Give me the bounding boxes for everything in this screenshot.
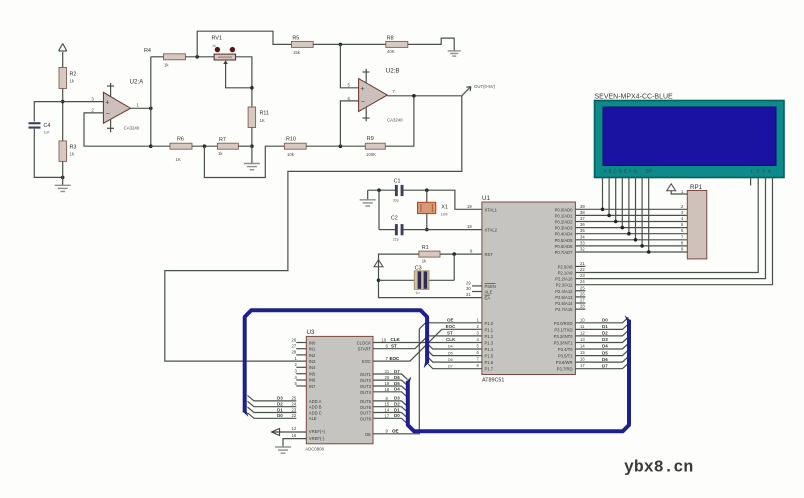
- svg-text:24: 24: [580, 279, 585, 284]
- wire R11 node to ground: [251, 146, 253, 163]
- svg-text:18: 18: [385, 387, 390, 392]
- potentiometer RV1: [212, 36, 236, 65]
- wire OE from U3 to U1 P1.0: [373, 323, 482, 434]
- wire RP1 pin1 to power: [671, 191, 687, 194]
- wire U-loop under ground: [204, 146, 284, 177]
- node feedback/R6: [149, 144, 153, 148]
- svg-text:6: 6: [348, 96, 351, 101]
- op-amp U2:A: [92, 79, 145, 133]
- svg-text:100K: 100K: [366, 152, 376, 157]
- svg-text:R11: R11: [260, 111, 270, 117]
- svg-text:19: 19: [467, 204, 472, 209]
- power terminal triangle RP1: [667, 184, 676, 191]
- svg-text:EOC: EOC: [390, 356, 401, 361]
- capacitor C2: [395, 224, 404, 235]
- svg-text:25: 25: [580, 285, 585, 290]
- svg-text:3: 3: [295, 369, 298, 374]
- power terminal triangle VCC: [374, 260, 383, 267]
- svg-text:36: 36: [580, 222, 585, 227]
- wire C2 row to XTAL2: [379, 229, 395, 231]
- svg-text:2: 2: [92, 108, 95, 113]
- svg-text:D0: D0: [394, 413, 400, 418]
- node R7/R11/ground: [250, 144, 254, 148]
- svg-text:IN3: IN3: [309, 359, 316, 364]
- svg-text:25: 25: [292, 396, 297, 401]
- resistor R10: [284, 143, 306, 149]
- svg-text:1k: 1k: [164, 63, 169, 68]
- op-amp U2:B: [348, 68, 404, 123]
- svg-text:D0: D0: [602, 318, 608, 323]
- svg-text:14: 14: [580, 344, 585, 349]
- svg-text:30: 30: [466, 286, 471, 291]
- svg-text:P0.7/AD7: P0.7/AD7: [555, 250, 574, 255]
- U3 left inside labels: [309, 340, 326, 441]
- svg-text:P3.7/RD: P3.7/RD: [557, 367, 573, 372]
- wire R1 left to VCC rail: [379, 254, 482, 298]
- svg-text:5: 5: [681, 222, 684, 227]
- resistor R4: [164, 54, 186, 60]
- U1 P2 pin numbers 21-28: [580, 261, 585, 309]
- power terminal triangle VREF+: [272, 429, 280, 436]
- node U2:B out: [412, 94, 416, 98]
- wire RV1 wiper down: [226, 63, 252, 88]
- svg-text:ybx8.cn: ybx8.cn: [624, 458, 693, 477]
- svg-text:22: 22: [292, 413, 297, 418]
- svg-text:P0.6/AD6: P0.6/AD6: [555, 244, 574, 249]
- svg-text:1k: 1k: [218, 151, 223, 156]
- svg-text:4: 4: [477, 337, 480, 342]
- svg-text:28: 28: [292, 350, 297, 355]
- U1 left inside labels: [485, 207, 498, 371]
- svg-text:31: 31: [466, 292, 471, 297]
- svg-text:6: 6: [386, 344, 389, 349]
- svg-text:28: 28: [580, 304, 585, 309]
- bus A bottom taper: [243, 412, 249, 417]
- svg-text:IN6: IN6: [309, 378, 316, 383]
- svg-text:R9: R9: [367, 136, 374, 142]
- svg-text:OE: OE: [392, 429, 399, 434]
- svg-text:ADD A: ADD A: [309, 399, 322, 404]
- svg-text:D3: D3: [394, 396, 400, 401]
- svg-text:−: −: [106, 111, 110, 118]
- svg-text:D1: D1: [394, 407, 400, 412]
- wire U2:B output: [387, 95, 462, 97]
- bus A right taper: [424, 362, 429, 368]
- svg-text:U1: U1: [482, 195, 490, 202]
- wire row B left: [151, 145, 170, 147]
- svg-text:ADD B: ADD B: [309, 405, 322, 410]
- svg-text:38: 38: [580, 210, 585, 215]
- svg-text:D4: D4: [602, 344, 608, 349]
- svg-text:27: 27: [580, 298, 585, 303]
- wire R4 to RV1: [186, 56, 215, 58]
- svg-text:11: 11: [580, 324, 585, 329]
- svg-text:RV1: RV1: [212, 36, 222, 42]
- svg-text:17: 17: [580, 363, 585, 368]
- node R1/C3/RST: [452, 252, 456, 256]
- svg-text:19: 19: [385, 381, 390, 386]
- svg-text:1k: 1k: [422, 259, 427, 264]
- svg-text:XTAL1: XTAL1: [485, 207, 498, 212]
- svg-text:IN2: IN2: [309, 353, 316, 358]
- node C1 left / C2 branch: [377, 188, 381, 192]
- svg-text:D6: D6: [448, 358, 453, 362]
- wire R6 to R7: [192, 145, 217, 147]
- svg-text:10: 10: [382, 337, 387, 342]
- svg-text:VREF(+): VREF(+): [309, 429, 326, 434]
- svg-text:OUT1: OUT1: [360, 372, 372, 377]
- U1 P2 unused stubs: [575, 266, 585, 309]
- svg-text:P3.0/RXD: P3.0/RXD: [554, 321, 573, 326]
- svg-text:CA3240: CA3240: [387, 118, 403, 123]
- wire RV1 right end down to R11: [236, 57, 252, 107]
- svg-text:7: 7: [681, 234, 684, 239]
- svg-text:3: 3: [477, 330, 480, 335]
- node R4/RV1/jog: [195, 55, 199, 59]
- wire op-amp A -in feedback loop: [84, 113, 151, 146]
- bus B left top taper: [406, 377, 412, 382]
- svg-text:P3.6/WR: P3.6/WR: [556, 360, 573, 365]
- svg-text:ADC0808: ADC0808: [305, 447, 324, 452]
- resistor R9: [365, 143, 385, 149]
- wire R10 to R9: [306, 145, 365, 147]
- svg-text:IN1: IN1: [309, 347, 316, 352]
- svg-text:D1: D1: [602, 324, 608, 329]
- svg-text:4: 4: [681, 216, 684, 221]
- svg-text:23: 23: [292, 407, 297, 412]
- svg-text:P1.1: P1.1: [485, 327, 494, 332]
- svg-text:12: 12: [292, 426, 297, 431]
- display 7-seg outer frame: [595, 101, 785, 178]
- power terminal (up arrow) top-left: [59, 44, 67, 68]
- svg-text:1K: 1K: [260, 118, 265, 123]
- svg-text:OE: OE: [447, 318, 454, 323]
- svg-text:SEVEN-MPX4-CC-BLUE: SEVEN-MPX4-CC-BLUE: [595, 93, 674, 100]
- svg-text:C3: C3: [415, 265, 422, 271]
- svg-text:D5: D5: [602, 350, 608, 355]
- svg-text:37: 37: [580, 216, 585, 221]
- svg-text:D4: D4: [394, 387, 400, 392]
- svg-text:8: 8: [681, 240, 684, 245]
- wire R5 to R8: [313, 43, 386, 45]
- node X1 top: [425, 188, 429, 192]
- svg-text:20: 20: [385, 375, 390, 380]
- svg-text:9: 9: [470, 249, 473, 254]
- svg-text:CLK: CLK: [446, 337, 456, 342]
- svg-text:ADD C: ADD C: [309, 410, 322, 415]
- display digit1 stub: [750, 178, 752, 186]
- wire R2 bottom to R3 top: [62, 89, 64, 141]
- wire VREF(-) to ground: [283, 439, 306, 447]
- svg-text:5: 5: [477, 344, 480, 349]
- ground crystal section: [367, 190, 369, 200]
- svg-text:−: −: [361, 99, 365, 106]
- svg-text:IN7: IN7: [309, 384, 316, 389]
- svg-text:D5: D5: [448, 351, 453, 355]
- svg-text:1u: 1u: [416, 291, 420, 295]
- svg-text:D2: D2: [602, 331, 608, 336]
- node R10/R9/-in: [339, 144, 343, 148]
- svg-text:16: 16: [580, 357, 585, 362]
- svg-text:OUT5: OUT5: [360, 399, 372, 404]
- svg-text:13: 13: [580, 337, 585, 342]
- svg-text:3: 3: [681, 210, 684, 215]
- wire C4 bottom to ground rail: [34, 129, 62, 178]
- svg-text:8: 8: [477, 363, 480, 368]
- U1 P3 bus entry wires: [575, 317, 628, 368]
- MCU U1 body: [482, 202, 576, 375]
- svg-text:5: 5: [348, 83, 351, 88]
- svg-text:26: 26: [580, 291, 585, 296]
- svg-text:1k: 1k: [212, 44, 216, 48]
- svg-text:6: 6: [681, 228, 684, 233]
- svg-text:D7: D7: [394, 369, 400, 374]
- wire X1 top stub: [426, 190, 428, 202]
- svg-text:OUT2: OUT2: [360, 378, 372, 383]
- U1 left pin stubs PSEN ALE: [472, 285, 482, 287]
- resistor R8: [386, 41, 408, 47]
- svg-text:AT89C51: AT89C51: [482, 378, 504, 384]
- svg-text:CLOCK: CLOCK: [357, 340, 372, 345]
- svg-text:P3.2/INT0: P3.2/INT0: [554, 334, 574, 339]
- node R6/R7/loop: [203, 144, 207, 148]
- wire C3 right up to RST node: [453, 254, 455, 280]
- svg-text:14: 14: [385, 408, 390, 413]
- U1 P0 pin numbers 39-32: [580, 204, 585, 252]
- svg-text:15k: 15k: [293, 50, 301, 55]
- svg-text:PSEN: PSEN: [485, 284, 496, 289]
- wire R4 row: [151, 56, 164, 58]
- svg-text:30p: 30p: [393, 198, 399, 202]
- svg-text:P2.5/A13: P2.5/A13: [555, 295, 573, 300]
- svg-text:P0.4/AD4: P0.4/AD4: [555, 232, 574, 237]
- labels D3-D0 on ADD wires: [277, 396, 283, 418]
- svg-text:P2.6/A14: P2.6/A14: [555, 301, 573, 306]
- svg-text:P0.0/AD0: P0.0/AD0: [555, 207, 574, 212]
- svg-text:24: 24: [292, 402, 297, 407]
- wire X1 bottom stub: [426, 214, 428, 230]
- svg-text:P2.7/A15: P2.7/A15: [555, 307, 573, 312]
- labels near U1 P1 pins: [446, 318, 457, 343]
- svg-text:34: 34: [580, 234, 585, 239]
- wire R11 bottom to row B: [251, 128, 253, 147]
- svg-text:32: 32: [580, 247, 585, 252]
- svg-text:P2.4/A12: P2.4/A12: [555, 289, 573, 294]
- ADC U3 body: [306, 336, 373, 443]
- svg-text:START: START: [358, 347, 372, 352]
- svg-text:R2: R2: [70, 72, 77, 78]
- svg-text:22: 22: [580, 267, 585, 272]
- svg-text:OUT(0-5V): OUT(0-5V): [474, 84, 496, 89]
- wire R7 to R11 node: [238, 145, 252, 147]
- wire ADD A from bus: [248, 395, 297, 418]
- resistor R5: [292, 41, 314, 47]
- wire op-amp A output: [131, 107, 151, 109]
- svg-text:7: 7: [477, 357, 480, 362]
- svg-text:ALE: ALE: [309, 416, 317, 421]
- svg-text:P1.7: P1.7: [485, 367, 494, 372]
- wire jog up over RV1 to R5: [197, 31, 291, 57]
- svg-text:15: 15: [385, 402, 390, 407]
- svg-text:P1.6: P1.6: [485, 360, 494, 365]
- svg-text:35: 35: [580, 228, 585, 233]
- svg-text:D5: D5: [394, 381, 400, 386]
- svg-text:R5: R5: [292, 36, 299, 42]
- resistor R1: [419, 251, 440, 257]
- svg-text:D6: D6: [394, 375, 400, 380]
- svg-text:U2:A: U2:A: [130, 79, 145, 86]
- node junction R3 bottom: [61, 176, 65, 180]
- node op-amp A out: [149, 107, 153, 111]
- wire -in vertical U2:B: [340, 101, 358, 146]
- svg-text:R7: R7: [219, 137, 226, 143]
- bus segment B (bottom U-shape): [408, 320, 629, 431]
- node wiper/R11: [250, 86, 254, 90]
- svg-text:R10: R10: [286, 137, 296, 143]
- svg-text:D6: D6: [602, 357, 608, 362]
- svg-text:R4: R4: [144, 48, 151, 54]
- svg-text:OUT7: OUT7: [360, 411, 372, 416]
- svg-text:P3.1/TXD: P3.1/TXD: [554, 327, 572, 332]
- RP1 pin numbers: [681, 189, 684, 252]
- U3 right pin numbers: [382, 337, 390, 433]
- U1 right inside labels: [554, 207, 574, 371]
- svg-text:OUT8: OUT8: [360, 416, 372, 421]
- svg-text:8: 8: [386, 396, 389, 401]
- svg-text:OE: OE: [365, 432, 371, 437]
- svg-text:21: 21: [385, 369, 390, 374]
- wire CLOCK to U1 P1.3 (CLK): [373, 342, 482, 344]
- wire P2.3 to display digit 4: [575, 178, 772, 285]
- resistor R7: [217, 143, 238, 149]
- svg-text:P3.5/T1: P3.5/T1: [558, 354, 573, 359]
- svg-text:R1: R1: [422, 245, 429, 251]
- capacitor C4: [29, 122, 41, 128]
- svg-text:EA: EA: [485, 295, 491, 300]
- svg-text:7: 7: [393, 89, 396, 94]
- svg-text:6: 6: [477, 350, 480, 355]
- resistor R11: [248, 107, 256, 128]
- resistor R3: [59, 141, 67, 162]
- svg-text:12M: 12M: [441, 213, 448, 217]
- wire C3 row: [379, 279, 415, 281]
- svg-text:P1.5: P1.5: [485, 354, 494, 359]
- capacitor C3 electrolytic: [414, 271, 429, 290]
- svg-text:P0.2/AD2: P0.2/AD2: [555, 220, 574, 225]
- svg-text:10: 10: [580, 317, 585, 322]
- svg-text:5: 5: [295, 381, 298, 386]
- svg-text:VREF(-): VREF(-): [309, 436, 325, 441]
- svg-text:RP1: RP1: [690, 184, 703, 191]
- svg-text:27: 27: [292, 344, 297, 349]
- wire R9 to feedback vertical: [385, 96, 414, 146]
- svg-text:P2.1/A9: P2.1/A9: [558, 271, 574, 276]
- svg-text:C1: C1: [394, 178, 401, 184]
- svg-text:2: 2: [295, 362, 298, 367]
- U1 P0 wires to RP1: [575, 209, 687, 252]
- resistor R2: [59, 68, 67, 89]
- wire R3 to ground: [62, 161, 64, 185]
- svg-text:D0: D0: [277, 413, 283, 418]
- svg-text:D1: D1: [277, 407, 283, 412]
- svg-text:+: +: [105, 100, 109, 107]
- svg-text:C4: C4: [44, 123, 51, 129]
- svg-text:D2: D2: [394, 402, 400, 407]
- wire P2.2 to display digit 3: [575, 178, 765, 279]
- crystal X1: [418, 202, 436, 213]
- svg-text:P1.4: P1.4: [485, 347, 494, 352]
- svg-text:U3: U3: [307, 329, 315, 336]
- svg-text:40K: 40K: [387, 49, 395, 54]
- svg-text:1uF: 1uF: [44, 131, 51, 135]
- U3 right inside labels: [357, 340, 372, 437]
- svg-text:1: 1: [477, 317, 480, 322]
- wire VREF(+) to input terminal: [272, 431, 306, 433]
- svg-text:P0.5/AD5: P0.5/AD5: [555, 238, 574, 243]
- svg-text:39: 39: [580, 204, 585, 209]
- svg-text:1234: 1234: [751, 169, 774, 174]
- svg-text:9: 9: [386, 429, 389, 434]
- bus segment A (left C-shape): [245, 310, 427, 412]
- junction dots segment wires: [601, 208, 651, 254]
- svg-text:OUT3: OUT3: [360, 384, 372, 389]
- svg-text:16: 16: [292, 433, 297, 438]
- svg-text:15: 15: [580, 350, 585, 355]
- resistor R6: [170, 143, 192, 149]
- svg-text:U2:B: U2:B: [386, 68, 400, 75]
- wire C1 row: [368, 189, 395, 191]
- labels D0-D7 on P3 wires: [602, 318, 608, 369]
- svg-text:26: 26: [292, 337, 297, 342]
- node X1 bottom: [425, 228, 429, 232]
- svg-text:D3: D3: [277, 396, 283, 401]
- svg-text:1K: 1K: [176, 157, 181, 162]
- display screen: [603, 107, 776, 166]
- wire START to U1 P1.2 (ST): [373, 336, 482, 349]
- svg-text:ALE: ALE: [485, 290, 493, 295]
- svg-text:1: 1: [295, 356, 298, 361]
- U3 left pin numbers: [292, 337, 298, 438]
- svg-text:ST: ST: [447, 331, 453, 336]
- svg-text:P1.0: P1.0: [485, 321, 494, 326]
- wire R8 to ground hook: [408, 38, 454, 51]
- svg-text:+: +: [360, 86, 364, 93]
- svg-text:17: 17: [385, 413, 390, 418]
- wire P2.1 to display digit 2: [575, 178, 758, 273]
- svg-text:EOC: EOC: [446, 324, 457, 329]
- display segment wires down to P0 rows: [603, 178, 649, 253]
- wire branch down to C2 row: [378, 190, 380, 229]
- svg-text:RST: RST: [485, 252, 494, 257]
- U1 left pin numbers: [466, 204, 473, 297]
- U3 left pin stubs IN0-IN7: [296, 343, 306, 387]
- svg-text:1: 1: [137, 103, 140, 108]
- node C3 left: [377, 279, 381, 283]
- svg-text:C2: C2: [391, 215, 398, 221]
- svg-text:9: 9: [681, 247, 684, 252]
- svg-text:X1: X1: [441, 205, 448, 211]
- svg-text:ST: ST: [391, 343, 397, 348]
- svg-text:R3: R3: [70, 145, 77, 151]
- svg-text:P1.2: P1.2: [485, 334, 494, 339]
- svg-text:4: 4: [295, 375, 298, 380]
- svg-text:DP: DP: [646, 169, 652, 174]
- ground below R11: [244, 164, 260, 170]
- svg-text:1k: 1k: [70, 152, 75, 157]
- U3 OUT1-OUT8 bus entry wires: [373, 374, 408, 424]
- svg-text:CA3240: CA3240: [124, 125, 140, 130]
- svg-text:XTAL2: XTAL2: [485, 228, 498, 233]
